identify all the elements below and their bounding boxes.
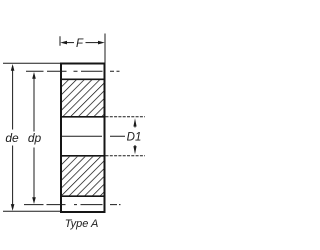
svg-text:de: de — [5, 131, 19, 145]
svg-text:F: F — [76, 38, 84, 50]
svg-text:Type A: Type A — [65, 218, 99, 230]
svg-text:dp: dp — [28, 131, 42, 145]
svg-text:D1: D1 — [127, 131, 142, 143]
